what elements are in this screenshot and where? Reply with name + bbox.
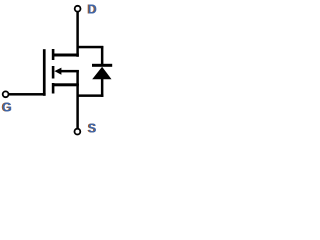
mosfet Q1 drain bar [52,54,79,57]
mosfet Q1 gate line [43,49,46,96]
label G [1,100,12,114]
mosfet Q1 body arrowhead [54,68,61,75]
mosfet Q1 source bar [52,83,79,86]
mosfet Q1 channel segment middle [52,66,55,79]
svg-text:S: S [88,122,96,136]
wire drain vertical [76,12,79,57]
label S [87,122,96,136]
wire diode cathode vertical [101,46,104,65]
mosfet Q1 body bar with arrow [59,70,79,73]
diode D1 cathode bar [92,64,112,67]
diode D1 anode triangle [92,67,111,79]
mosfet Q1 channel segment top [52,49,55,60]
wire drain to diode horizontal [77,46,103,49]
mosfet Q1 channel segment bottom [52,83,55,94]
wire gate horizontal [9,93,46,96]
terminal G [3,91,9,97]
terminal S [75,129,81,135]
terminal D [75,6,81,12]
svg-text:D: D [88,2,97,16]
wire body to source vertical [76,70,79,85]
label D [87,2,97,16]
wire diode anode vertical [101,79,104,97]
wire source vertical [76,84,79,128]
svg-text:G: G [2,100,12,114]
wire diode return horizontal [77,94,103,97]
